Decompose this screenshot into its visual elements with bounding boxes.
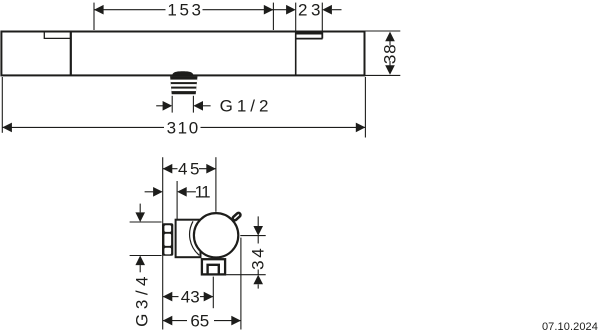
svg-text:G3/4: G3/4 [132,272,151,327]
svg-text:34: 34 [248,246,267,270]
svg-text:07.10.2024: 07.10.2024 [542,321,598,333]
svg-text:23: 23 [298,1,324,20]
svg-text:310: 310 [167,118,200,137]
svg-text:38: 38 [380,44,399,65]
svg-text:45: 45 [178,160,202,179]
svg-text:G1/2: G1/2 [220,97,273,116]
svg-text:43: 43 [181,288,200,307]
svg-text:11: 11 [195,183,211,202]
svg-text:153: 153 [167,1,203,20]
svg-text:65: 65 [190,312,209,331]
